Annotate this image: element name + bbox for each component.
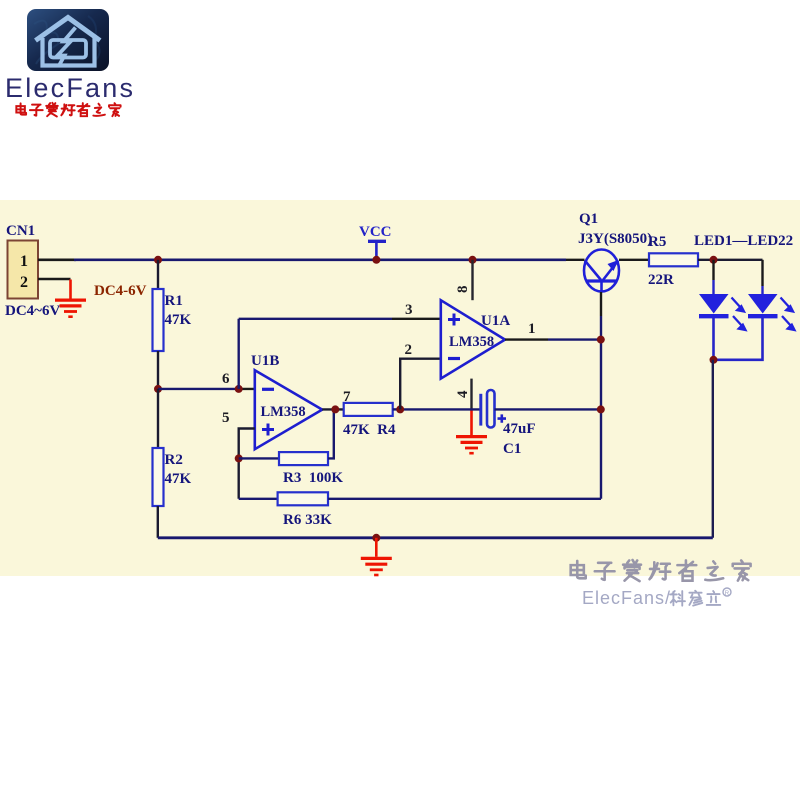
node junction U1B output: [331, 405, 339, 413]
svg-text:8: 8: [455, 286, 471, 294]
svg-text:Q1: Q1: [579, 211, 598, 227]
wire U1A pin4 vertical: [470, 379, 472, 410]
wire R2 top stem: [157, 389, 159, 448]
wire divider to pin6: [158, 388, 239, 390]
svg-text:DC4-6V: DC4-6V: [94, 283, 147, 299]
wire R1 bottom stem: [157, 351, 159, 389]
watermark 电子爱好者之家 (gray): [571, 560, 751, 581]
ground at bottom rail: [361, 538, 392, 575]
svg-text:47K: 47K: [165, 312, 192, 328]
wire R5 right to LED node: [698, 259, 763, 261]
LED2 light arrows: [781, 298, 795, 331]
node junction C1/emitter line: [597, 405, 605, 413]
svg-text:22R: 22R: [648, 272, 674, 288]
node junction bottom ground: [372, 534, 380, 542]
node junction at pin6: [235, 385, 243, 393]
node junction R4/C1/pin2: [396, 405, 404, 413]
wire C1 left: [404, 408, 480, 410]
U1A plus symbol: [448, 314, 460, 326]
svg-text:LM358: LM358: [449, 334, 494, 350]
svg-text:4: 4: [455, 390, 471, 398]
svg-text:J3Y(S8050): J3Y(S8050): [578, 231, 652, 247]
node junction pin5/R3: [235, 454, 243, 462]
LED2: [714, 260, 778, 360]
svg-text:R1: R1: [165, 293, 183, 309]
wire R1 top stem: [157, 260, 159, 289]
VCC symbol: [368, 241, 386, 259]
node junction pin1/emitter line: [597, 336, 605, 344]
watermark ElecFans/科彦立: [582, 588, 731, 608]
svg-text:VCC: VCC: [359, 224, 392, 240]
svg-text:U1A: U1A: [481, 313, 510, 329]
wire Q1 emitter vertical: [600, 292, 602, 316]
U1B minus symbol: [262, 388, 274, 391]
svg-text:2: 2: [20, 274, 28, 291]
LED1: [699, 260, 729, 356]
wire R3 right up to output node: [328, 409, 334, 458]
schematic yellow background: [0, 200, 800, 576]
Q1 emitter arrow: [608, 260, 619, 271]
wire feedback vertical to pin3 line: [237, 319, 239, 389]
connector CN1 box: [8, 241, 39, 299]
transistor Q1: [584, 250, 619, 293]
wire R4 right to node: [393, 408, 401, 410]
svg-text:R5: R5: [648, 234, 666, 250]
svg-text:DC4~6V: DC4~6V: [5, 303, 60, 319]
svg-text:LM358: LM358: [261, 404, 306, 420]
op-amp U1A: [441, 300, 505, 378]
node junction LED bottom: [710, 356, 718, 364]
op-amp U1B: [255, 370, 322, 449]
svg-text:6: 6: [222, 371, 230, 387]
wire pin5 corner: [239, 429, 255, 499]
svg-text:R: R: [725, 591, 730, 597]
wire R3 left stub: [239, 457, 279, 459]
wire Q1 collector to R5: [619, 259, 649, 261]
logo house icon: [36, 18, 101, 67]
svg-text:2: 2: [405, 342, 413, 358]
wire U1A pin8 vertical: [471, 260, 473, 300]
wire R2 bottom to bottom rail: [157, 506, 159, 538]
LED1 light arrows: [732, 298, 746, 331]
svg-text:R6 33K: R6 33K: [283, 512, 332, 528]
wire C1 right: [495, 408, 601, 410]
C1 plus sign: [498, 414, 507, 422]
svg-text:ElecFans/: ElecFans/: [582, 588, 671, 608]
resistor R1: [153, 289, 164, 351]
wire pin6 stub: [239, 388, 255, 390]
wire U1B output stub: [322, 408, 344, 410]
svg-text:47uF: 47uF: [503, 421, 536, 437]
svg-text:47K R4: 47K R4: [343, 422, 396, 438]
node junction at R1 top: [154, 256, 162, 264]
wire U1A output pin1: [505, 338, 548, 340]
capacitor C1: [481, 390, 495, 428]
resistor R6: [278, 492, 328, 505]
svg-text:47K: 47K: [165, 471, 192, 487]
logo badge: [27, 9, 109, 71]
resistor R2: [153, 448, 164, 506]
svg-text:R2: R2: [165, 452, 183, 468]
wire LED return vertical: [712, 360, 714, 538]
wire pin3 horizontal: [239, 318, 392, 320]
wire CN1 pin2 stub: [38, 278, 71, 281]
node junction LED top: [710, 256, 718, 264]
svg-text:R3 100K: R3 100K: [283, 470, 343, 486]
ground at U1A pin4 / C1: [456, 409, 487, 453]
svg-text:3: 3: [405, 302, 413, 318]
svg-text:CN1: CN1: [6, 223, 35, 239]
svg-text:C1: C1: [503, 441, 521, 457]
wire top supply rail: [74, 258, 566, 261]
logo tagline 电子爱好者之家 (red): [16, 103, 120, 117]
U1A minus symbol: [448, 357, 460, 360]
wire R6 right run to Q1 emitter line: [328, 498, 601, 500]
resistor R5: [649, 253, 698, 266]
wire pin2 corner: [400, 359, 441, 410]
svg-text:1: 1: [528, 321, 536, 337]
svg-text:LED1—LED22: LED1—LED22: [694, 233, 793, 249]
resistor R3: [279, 452, 328, 465]
resistor R4: [344, 403, 393, 416]
node junction at VCC: [372, 256, 380, 264]
svg-text:1: 1: [20, 253, 28, 270]
wire top rail black segment near Q1: [566, 259, 585, 261]
svg-text:5: 5: [222, 410, 230, 426]
U1B plus symbol: [262, 424, 274, 436]
wire bottom rail: [158, 536, 713, 539]
svg-text:ElecFans: ElecFans: [5, 73, 135, 103]
svg-text:U1B: U1B: [251, 353, 279, 369]
wire R6 left stub: [239, 498, 278, 500]
node junction R1/R2: [154, 385, 162, 393]
wire CN1 pin1 stub: [38, 258, 76, 261]
ground at CN1: [55, 280, 86, 317]
node junction at U1A pin8: [469, 256, 477, 264]
